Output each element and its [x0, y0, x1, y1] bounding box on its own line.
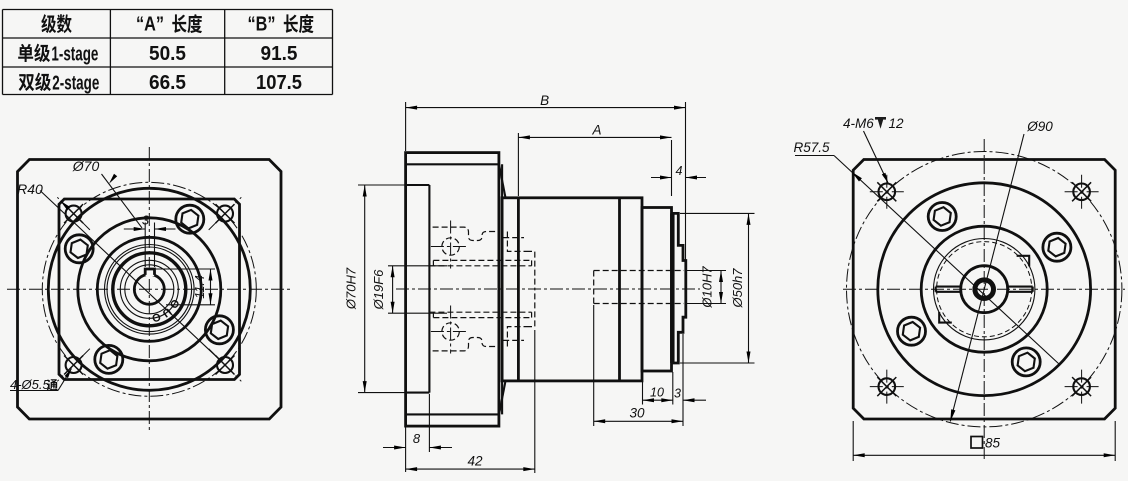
svg-text:3: 3 — [674, 387, 681, 401]
svg-text:12: 12 — [889, 116, 905, 131]
svg-text:R57.5: R57.5 — [793, 140, 830, 155]
svg-text:Ø70: Ø70 — [72, 158, 100, 174]
svg-text:91.5: 91.5 — [261, 42, 298, 65]
svg-text:66.5: 66.5 — [149, 71, 186, 94]
svg-text:2-stage: 2-stage — [52, 71, 99, 94]
svg-text:50.5: 50.5 — [149, 42, 186, 65]
svg-text:“A”: “A” — [136, 14, 164, 36]
svg-text:Ø10H7: Ø10H7 — [700, 266, 715, 309]
svg-text:R40: R40 — [17, 181, 43, 197]
svg-text:Ø19F6: Ø19F6 — [371, 269, 386, 311]
svg-text:3: 3 — [142, 213, 150, 228]
svg-text:85: 85 — [985, 436, 1001, 451]
svg-text:Ø70H7: Ø70H7 — [344, 267, 359, 310]
svg-text:42: 42 — [467, 454, 483, 469]
svg-text:4: 4 — [676, 164, 683, 178]
svg-text:B: B — [540, 93, 549, 108]
svg-text:Ø50h7: Ø50h7 — [730, 268, 745, 309]
svg-text:107.5: 107.5 — [256, 71, 302, 94]
svg-text:4-Ø5.5: 4-Ø5.5 — [10, 377, 51, 392]
svg-text:A: A — [591, 123, 601, 138]
svg-text:4-M6: 4-M6 — [843, 116, 874, 131]
svg-text:30: 30 — [629, 406, 645, 421]
svg-text:8: 8 — [413, 431, 421, 446]
svg-text:1-stage: 1-stage — [51, 42, 98, 65]
svg-text:“B”: “B” — [248, 14, 276, 36]
svg-text:11.4: 11.4 — [193, 275, 207, 298]
svg-text:Ø90: Ø90 — [1026, 119, 1053, 134]
svg-text:10: 10 — [650, 386, 664, 400]
